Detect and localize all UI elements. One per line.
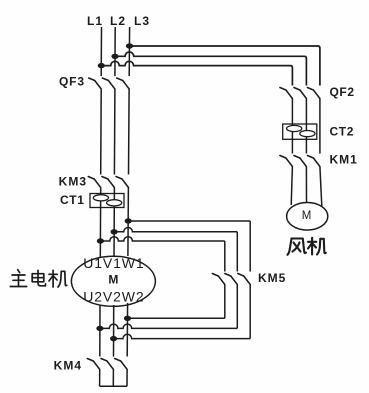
- svg-text:M: M: [108, 273, 118, 287]
- svg-text:QF3: QF3: [59, 74, 85, 88]
- svg-text:U2V2W2: U2V2W2: [83, 289, 144, 305]
- svg-text:M: M: [302, 210, 312, 222]
- svg-text:QF2: QF2: [330, 85, 355, 99]
- svg-text:KM5: KM5: [258, 271, 286, 285]
- svg-text:L2: L2: [110, 14, 126, 28]
- svg-text:KM1: KM1: [330, 152, 358, 166]
- svg-text:U1V1W1: U1V1W1: [83, 255, 144, 271]
- svg-text:KM4: KM4: [54, 358, 82, 372]
- svg-text:CT1: CT1: [60, 193, 84, 207]
- svg-text:CT2: CT2: [330, 125, 354, 139]
- svg-text:KM3: KM3: [59, 174, 87, 188]
- svg-text:L3: L3: [134, 14, 150, 28]
- svg-text:L1: L1: [87, 14, 103, 28]
